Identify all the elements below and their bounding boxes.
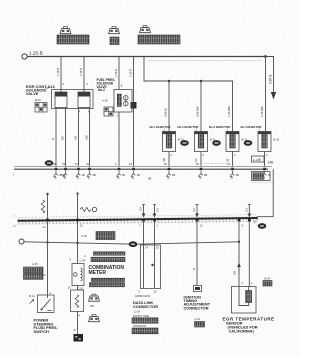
wire DLC drop 2 xyxy=(154,221,156,288)
connector oval right xyxy=(258,223,267,229)
combination meter connector strip 1 xyxy=(94,252,126,255)
connector C-72 pin box xyxy=(110,37,119,45)
svg-text:3B: 3B xyxy=(204,173,207,177)
svg-text:0.85-BL: 0.85-BL xyxy=(164,107,168,117)
wire DLC drop 1 xyxy=(143,221,145,288)
svg-text:A-01: A-01 xyxy=(195,317,201,321)
svg-text:10: 10 xyxy=(129,162,132,166)
connector oval C-06 xyxy=(89,315,100,322)
svg-text:1B: 1B xyxy=(268,173,271,177)
fuel pressure solenoid box xyxy=(114,90,132,113)
svg-text:CONNECTOR: CONNECTOR xyxy=(184,305,209,310)
connector oval B-13 xyxy=(180,140,189,146)
connector oval B-12 xyxy=(244,140,253,146)
wire solenoid pin1 down xyxy=(55,108,57,167)
coolant temperature gauge box xyxy=(72,264,84,286)
svg-text:3B: 3B xyxy=(93,173,96,177)
svg-text:C-18: C-18 xyxy=(134,310,140,314)
ECU internal gauge branch xyxy=(77,194,79,220)
wire to ground xyxy=(77,312,79,335)
svg-text:A-06: A-06 xyxy=(102,99,108,103)
svg-text:14: 14 xyxy=(145,246,148,250)
svg-text:B-04: B-04 xyxy=(265,277,271,281)
svg-text:15: 15 xyxy=(68,286,71,290)
svg-text:FRONT SIDE: FRONT SIDE xyxy=(133,314,149,318)
injector 4 xyxy=(258,128,271,158)
connector oval DLC feed xyxy=(129,241,138,247)
svg-text:B: B xyxy=(192,268,196,270)
svg-text:59: 59 xyxy=(63,162,66,166)
wire EGR sensor pin2 with T to DLC link xyxy=(238,221,240,287)
junction injector 1 xyxy=(168,80,171,83)
svg-text:1.25-BW: 1.25-BW xyxy=(227,106,231,117)
svg-text:1.25-B: 1.25-B xyxy=(79,68,83,76)
combination meter connector strip 2 xyxy=(91,257,125,261)
wire injector4 drop xyxy=(265,57,267,132)
internal arrow ign timing xyxy=(195,205,199,218)
wire solenoid pin4 down xyxy=(78,108,80,167)
svg-text:58: 58 xyxy=(53,162,56,166)
wire scan ghost line xyxy=(148,60,262,62)
svg-text:15: 15 xyxy=(156,246,159,250)
svg-text:GRND DATA: GRND DATA xyxy=(135,294,151,298)
wire drop to purge solenoid xyxy=(60,57,62,93)
svg-text:12: 12 xyxy=(200,224,203,228)
data link connector box xyxy=(141,245,161,289)
svg-text:No.1 INJECTOR: No.1 INJECTOR xyxy=(150,125,171,129)
svg-text:B: B xyxy=(73,329,77,331)
connector C-09 box xyxy=(96,232,115,240)
node MFI relay feed terminal xyxy=(22,54,27,59)
wire solenoid pin3 down xyxy=(65,108,67,167)
svg-text:BR: BR xyxy=(61,136,65,140)
solenoid coil 1 xyxy=(55,92,67,108)
svg-text:57: 57 xyxy=(75,162,78,166)
wire injector2 drop xyxy=(200,81,202,132)
solenoid coil 2 xyxy=(78,92,90,108)
svg-text:0.5: 0.5 xyxy=(244,208,248,212)
connector icon A-01 xyxy=(195,322,205,328)
svg-text:0.85-RW: 0.85-RW xyxy=(196,106,200,117)
ECU top boundary line upper xyxy=(14,165,272,167)
svg-text:CONNECTOR: CONNECTOR xyxy=(133,304,158,309)
connector face A-06 xyxy=(104,107,113,116)
svg-text:1B: 1B xyxy=(82,173,85,177)
gauge unit box xyxy=(77,286,79,291)
svg-text:INTERIOR: INTERIOR xyxy=(133,324,146,328)
svg-text:A-05: A-05 xyxy=(32,262,38,266)
connector C-31 pin box xyxy=(57,35,89,44)
svg-text:B-10: B-10 xyxy=(274,138,280,142)
svg-text:14B: 14B xyxy=(268,161,274,165)
svg-text:VALVE: VALVE xyxy=(26,91,39,96)
connector strip 4 xyxy=(90,283,125,287)
svg-text:SWITCH: SWITCH xyxy=(34,329,50,334)
wire fuel pressure solenoid down xyxy=(118,112,120,167)
svg-text:LW: LW xyxy=(162,158,166,162)
svg-text:B-14: B-14 xyxy=(29,294,35,298)
dashed line under label xyxy=(252,182,273,184)
ECU pin junction squares xyxy=(55,168,58,171)
wire sensor ground line xyxy=(24,242,239,244)
splice connector box xyxy=(131,102,137,109)
svg-text:16: 16 xyxy=(80,224,83,228)
svg-text:J/B: J/B xyxy=(90,304,94,308)
svg-text:C-09: C-09 xyxy=(81,234,87,238)
power steering fluid pressure switch xyxy=(38,295,55,313)
internal arrow EGR sensor xyxy=(247,205,251,218)
wire injector1 drop xyxy=(168,81,170,132)
injector 2 xyxy=(195,128,208,158)
svg-text:1.25-B: 1.25-B xyxy=(129,69,133,77)
junction squares on bus xyxy=(46,219,49,222)
svg-text:No.2: No.2 xyxy=(98,88,105,92)
svg-text:0.5: 0.5 xyxy=(138,207,142,211)
injector 3 xyxy=(226,128,239,158)
svg-text:50: 50 xyxy=(196,162,199,166)
connector oval on ECU line xyxy=(45,160,54,166)
wire top bus xyxy=(27,56,266,58)
wire power steering switch xyxy=(47,221,49,295)
svg-text:1.25-BW: 1.25-BW xyxy=(260,106,264,117)
svg-text:METER: METER xyxy=(89,270,107,276)
svg-text:0.5: 0.5 xyxy=(156,208,160,212)
ECU top boundary line lower xyxy=(14,168,268,170)
solenoid symbol circles xyxy=(117,94,121,107)
svg-text:52: 52 xyxy=(87,162,90,166)
wire branch to arrow xyxy=(266,57,274,93)
connector strip 3 xyxy=(92,278,125,281)
wire drop to fuel pressure solenoid xyxy=(118,57,120,90)
svg-text:4B: 4B xyxy=(236,173,239,177)
svg-text:LB: LB xyxy=(225,159,229,162)
wire solenoid pin6 down xyxy=(89,108,91,167)
svg-text:LR: LR xyxy=(194,159,198,162)
arrow down 0.85-B xyxy=(271,92,276,100)
ground connector block xyxy=(74,334,84,342)
svg-text:1B: 1B xyxy=(137,173,140,177)
svg-text:E-13: E-13 xyxy=(253,158,259,162)
ECU bottom hatched boundary xyxy=(17,216,257,225)
svg-text:GB: GB xyxy=(233,271,237,275)
wire coolant gauge column xyxy=(77,221,79,264)
connector C-76 icon xyxy=(140,26,151,33)
svg-text:CALIFORNIA): CALIFORNIA) xyxy=(229,329,255,334)
connector oval C-05 xyxy=(89,294,100,301)
wire drop to EGR solenoid xyxy=(83,57,85,93)
connector C-76 pin box xyxy=(138,35,180,44)
junction gauge wire xyxy=(76,242,78,244)
connector strip xyxy=(132,318,158,323)
resistor horizontal xyxy=(80,207,91,211)
svg-text:2B: 2B xyxy=(172,173,175,177)
connector A-05 box xyxy=(24,267,44,273)
resistor symbol xyxy=(41,200,45,213)
svg-text:5B: 5B xyxy=(148,177,151,181)
junction injector 2 xyxy=(200,80,203,83)
svg-text:1.25-B: 1.25-B xyxy=(114,69,118,77)
svg-text:B: B xyxy=(51,138,55,140)
ECU internal resistor branch xyxy=(46,193,48,195)
ECU name label box xyxy=(252,172,271,181)
arrow on wire xyxy=(237,263,241,268)
svg-text:0.5: 0.5 xyxy=(192,208,196,212)
ECU right edge wire xyxy=(258,169,274,219)
wire injector2 to ECU xyxy=(200,152,202,167)
wire injector1 to ECU xyxy=(168,152,170,167)
internal arrow DLC 1 xyxy=(142,205,146,218)
connector face B-03 xyxy=(35,103,47,113)
connector oval B-11 xyxy=(212,140,221,146)
EGR temperature sensor box xyxy=(232,287,257,314)
svg-text:8A: 8A xyxy=(122,173,125,177)
wire ignition timing connector xyxy=(196,221,198,286)
connector C-31 icon xyxy=(60,27,71,34)
dashed segment xyxy=(200,163,228,165)
injector 1 xyxy=(163,128,176,158)
connector C-72 icon xyxy=(109,27,120,34)
svg-text:GW: GW xyxy=(85,135,89,140)
wire EGR sensor pin1 xyxy=(248,221,250,287)
svg-text:GB: GB xyxy=(74,136,78,140)
svg-text:C-54: C-54 xyxy=(80,259,86,263)
svg-text:15: 15 xyxy=(254,220,257,224)
ECU driver symbols xyxy=(53,171,57,178)
svg-text:61: 61 xyxy=(228,162,231,166)
ignition timing terminal box xyxy=(194,286,202,292)
connector strip xyxy=(132,328,158,334)
internal arrow DLC 2 xyxy=(153,205,157,218)
svg-text:62: 62 xyxy=(164,162,167,166)
junction PS switch xyxy=(46,241,48,243)
junction in DLC xyxy=(151,264,153,266)
svg-text:1.25-B: 1.25-B xyxy=(56,68,60,76)
junction top right xyxy=(264,55,267,58)
ground terminal circle xyxy=(19,239,24,244)
svg-text:B-03: B-03 xyxy=(35,98,41,102)
connector label E-13 xyxy=(252,156,265,162)
wire splice drop xyxy=(133,57,135,167)
wire injector4 to ECU xyxy=(264,152,266,167)
svg-text:1.25-B: 1.25-B xyxy=(29,51,43,56)
wire riser to injector feed xyxy=(144,57,233,132)
svg-text:16: 16 xyxy=(154,290,157,294)
solenoid assembly outer box xyxy=(52,90,94,109)
wire injector3 to ECU xyxy=(232,152,234,167)
svg-text:0.85-B: 0.85-B xyxy=(269,75,273,84)
connector icon B-04 xyxy=(263,281,272,287)
svg-text:6B: 6B xyxy=(62,173,65,177)
